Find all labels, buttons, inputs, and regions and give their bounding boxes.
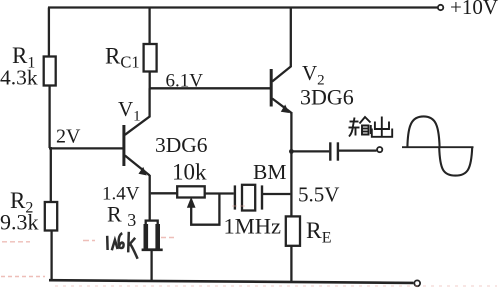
svg-text:+10V: +10V bbox=[450, 0, 498, 19]
svg-text:3DG6: 3DG6 bbox=[300, 85, 354, 110]
svg-text:RE: RE bbox=[306, 218, 331, 247]
svg-text:2V: 2V bbox=[56, 126, 81, 148]
svg-text:V1: V1 bbox=[118, 97, 141, 125]
svg-text:9.3k: 9.3k bbox=[0, 210, 39, 235]
svg-text:6.1V: 6.1V bbox=[166, 71, 204, 92]
svg-text:RC1: RC1 bbox=[105, 44, 140, 72]
svg-text:5.5V: 5.5V bbox=[298, 183, 339, 207]
svg-text:R3: R3 bbox=[107, 202, 136, 231]
svg-text:BM: BM bbox=[253, 160, 286, 184]
svg-text:3DG6: 3DG6 bbox=[155, 133, 208, 157]
svg-text:1MHz: 1MHz bbox=[224, 214, 282, 239]
svg-text:4.3k: 4.3k bbox=[0, 66, 38, 90]
svg-text:10k: 10k bbox=[172, 160, 207, 185]
